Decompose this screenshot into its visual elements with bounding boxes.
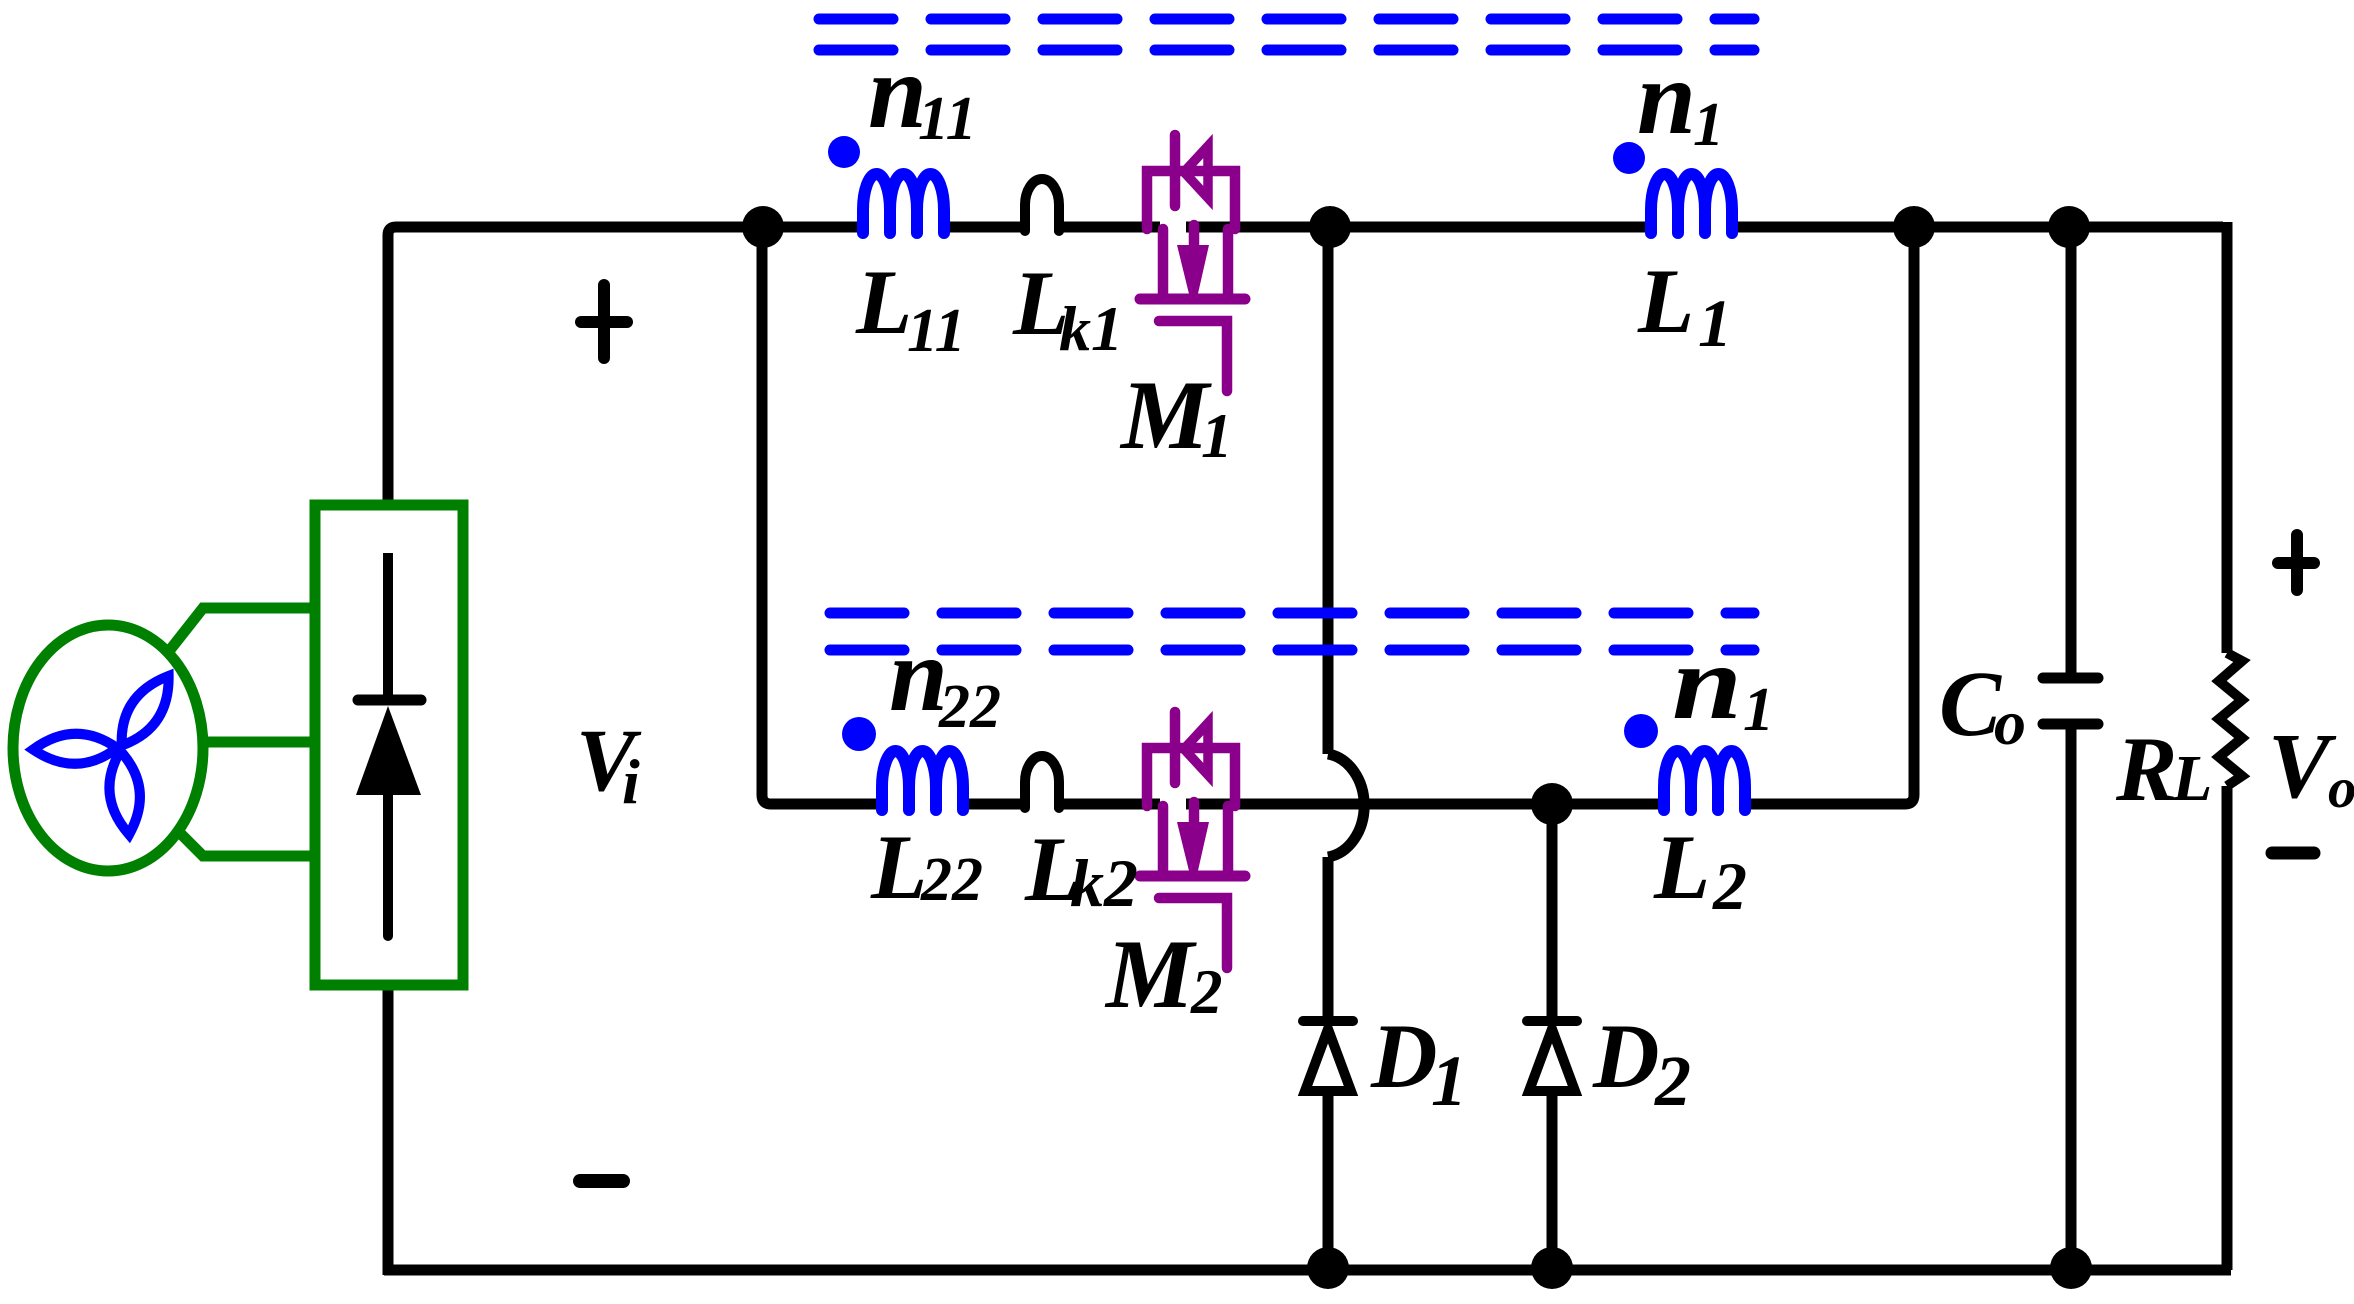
svg-text:R: R [2115, 718, 2177, 820]
svg-text:D: D [1370, 1005, 1437, 1107]
svg-text:o: o [2328, 757, 2354, 820]
svg-text:11: 11 [907, 297, 966, 365]
svg-text:1: 1 [1201, 401, 1233, 471]
svg-text:o: o [1994, 687, 2026, 758]
svg-text:2: 2 [1712, 848, 1747, 924]
svg-text:n: n [1672, 624, 1742, 741]
svg-text:C: C [1939, 653, 2002, 756]
svg-text:22: 22 [920, 846, 983, 914]
svg-text:k1: k1 [1059, 293, 1123, 364]
svg-text:n: n [1637, 39, 1696, 156]
svg-text:2: 2 [1654, 1041, 1691, 1121]
svg-text:M: M [1119, 361, 1212, 470]
svg-text:22: 22 [938, 673, 1001, 741]
svg-text:k2: k2 [1070, 845, 1138, 921]
svg-text:L: L [855, 251, 912, 353]
svg-text:V: V [2268, 715, 2337, 818]
svg-text:11: 11 [918, 85, 977, 153]
svg-text:L: L [2171, 742, 2212, 815]
svg-text:1: 1 [1431, 1041, 1467, 1121]
svg-text:1: 1 [1693, 91, 1724, 159]
svg-text:M: M [1104, 920, 1197, 1029]
svg-text:1: 1 [1743, 676, 1774, 744]
svg-text:L: L [1653, 816, 1710, 918]
svg-text:i: i [622, 746, 640, 817]
svg-text:L: L [870, 816, 927, 918]
svg-text:2: 2 [1190, 957, 1223, 1027]
svg-text:L: L [1637, 250, 1694, 352]
svg-text:1: 1 [1698, 285, 1732, 361]
svg-text:D: D [1592, 1005, 1659, 1107]
